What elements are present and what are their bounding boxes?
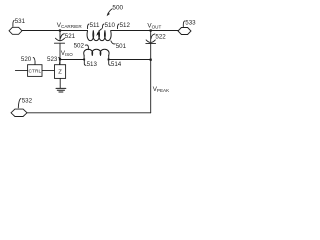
leader hook 520 — [33, 57, 35, 64]
svg-text:513: 513 — [87, 61, 98, 68]
terminal 531 — [9, 27, 22, 34]
junction node Vpeak branch — [150, 59, 152, 61]
wire left vertical top (rail to cap 521) — [59, 31, 61, 41]
leader hook 514 — [109, 60, 111, 65]
arrowhead 500 — [107, 13, 110, 16]
leader hook 502 — [85, 45, 88, 50]
svg-text:502: 502 — [74, 43, 85, 50]
svg-text:510: 510 — [105, 22, 116, 29]
svg-text:VPEAK: VPEAK — [153, 86, 170, 93]
svg-text:VCARRIER: VCARRIER — [57, 22, 83, 29]
arrowhead 510 — [96, 33, 99, 36]
svg-text:521: 521 — [65, 33, 76, 40]
svg-text:501: 501 — [116, 43, 127, 50]
leader hook 522 — [151, 34, 155, 39]
leader hook 521 — [61, 34, 65, 39]
leader hook 512 — [117, 24, 119, 29]
leader hook 501 — [111, 41, 115, 44]
wire right vertical top (rail to cap 522) — [150, 31, 152, 43]
svg-text:CTRL: CTRL — [29, 68, 42, 73]
wire stub into CTRL — [15, 70, 27, 72]
svg-text:500: 500 — [112, 4, 123, 11]
svg-text:VISO: VISO — [61, 50, 73, 57]
terminal 532 — [11, 109, 27, 116]
leader hook 511 — [87, 24, 89, 29]
junction coil left end — [83, 59, 85, 61]
wire bottom rail — [27, 112, 151, 114]
ground — [56, 88, 66, 92]
capacitor C522 — [146, 40, 156, 44]
leader hook 533 — [183, 21, 184, 27]
wire mid branch right (coil to Vpeak line) — [109, 59, 151, 61]
junction coil right end — [108, 59, 110, 61]
inductor 501/502 (bottom coil loops) — [84, 49, 109, 59]
svg-text:512: 512 — [120, 22, 131, 29]
svg-text:Z: Z — [58, 70, 62, 76]
leader hook 510 — [102, 24, 104, 28]
svg-text:511: 511 — [90, 22, 100, 29]
box Z (523) — [55, 65, 66, 79]
wire left vertical (cap to Viso node to Z box) — [59, 43, 61, 64]
leader hook 513 — [84, 60, 86, 65]
wire mid branch left (Viso node to coil) — [60, 59, 84, 61]
leader arrow 500 — [108, 9, 112, 14]
svg-text:532: 532 — [22, 98, 33, 105]
terminal 533 — [178, 28, 191, 35]
inductor 511/512 (top coil loops) — [87, 31, 111, 41]
leader hook 532 — [18, 99, 21, 108]
junction node Vcarrier — [59, 29, 61, 31]
svg-text:514: 514 — [111, 61, 122, 68]
leader arrow 510 into coil — [98, 29, 102, 34]
svg-text:VOUT: VOUT — [147, 23, 161, 30]
svg-text:520: 520 — [21, 56, 32, 63]
wire Z to ground — [59, 78, 61, 88]
wire right vertical (cap 522 down to bottom rail) — [150, 43, 152, 112]
svg-text:533: 533 — [185, 19, 196, 26]
box CTRL (520) — [28, 65, 42, 77]
leader hook 523 — [59, 57, 60, 64]
svg-text:531: 531 — [15, 18, 26, 25]
capacitor C521 — [54, 38, 64, 43]
junction node Viso — [59, 58, 61, 60]
junction node Vout — [150, 29, 152, 31]
wire CTRL to Z — [42, 70, 55, 72]
svg-text:523: 523 — [47, 56, 58, 63]
wire top rail right — [111, 30, 178, 32]
leader hook 531 — [13, 20, 14, 26]
wire top rail left — [22, 30, 88, 32]
svg-text:522: 522 — [155, 34, 166, 41]
